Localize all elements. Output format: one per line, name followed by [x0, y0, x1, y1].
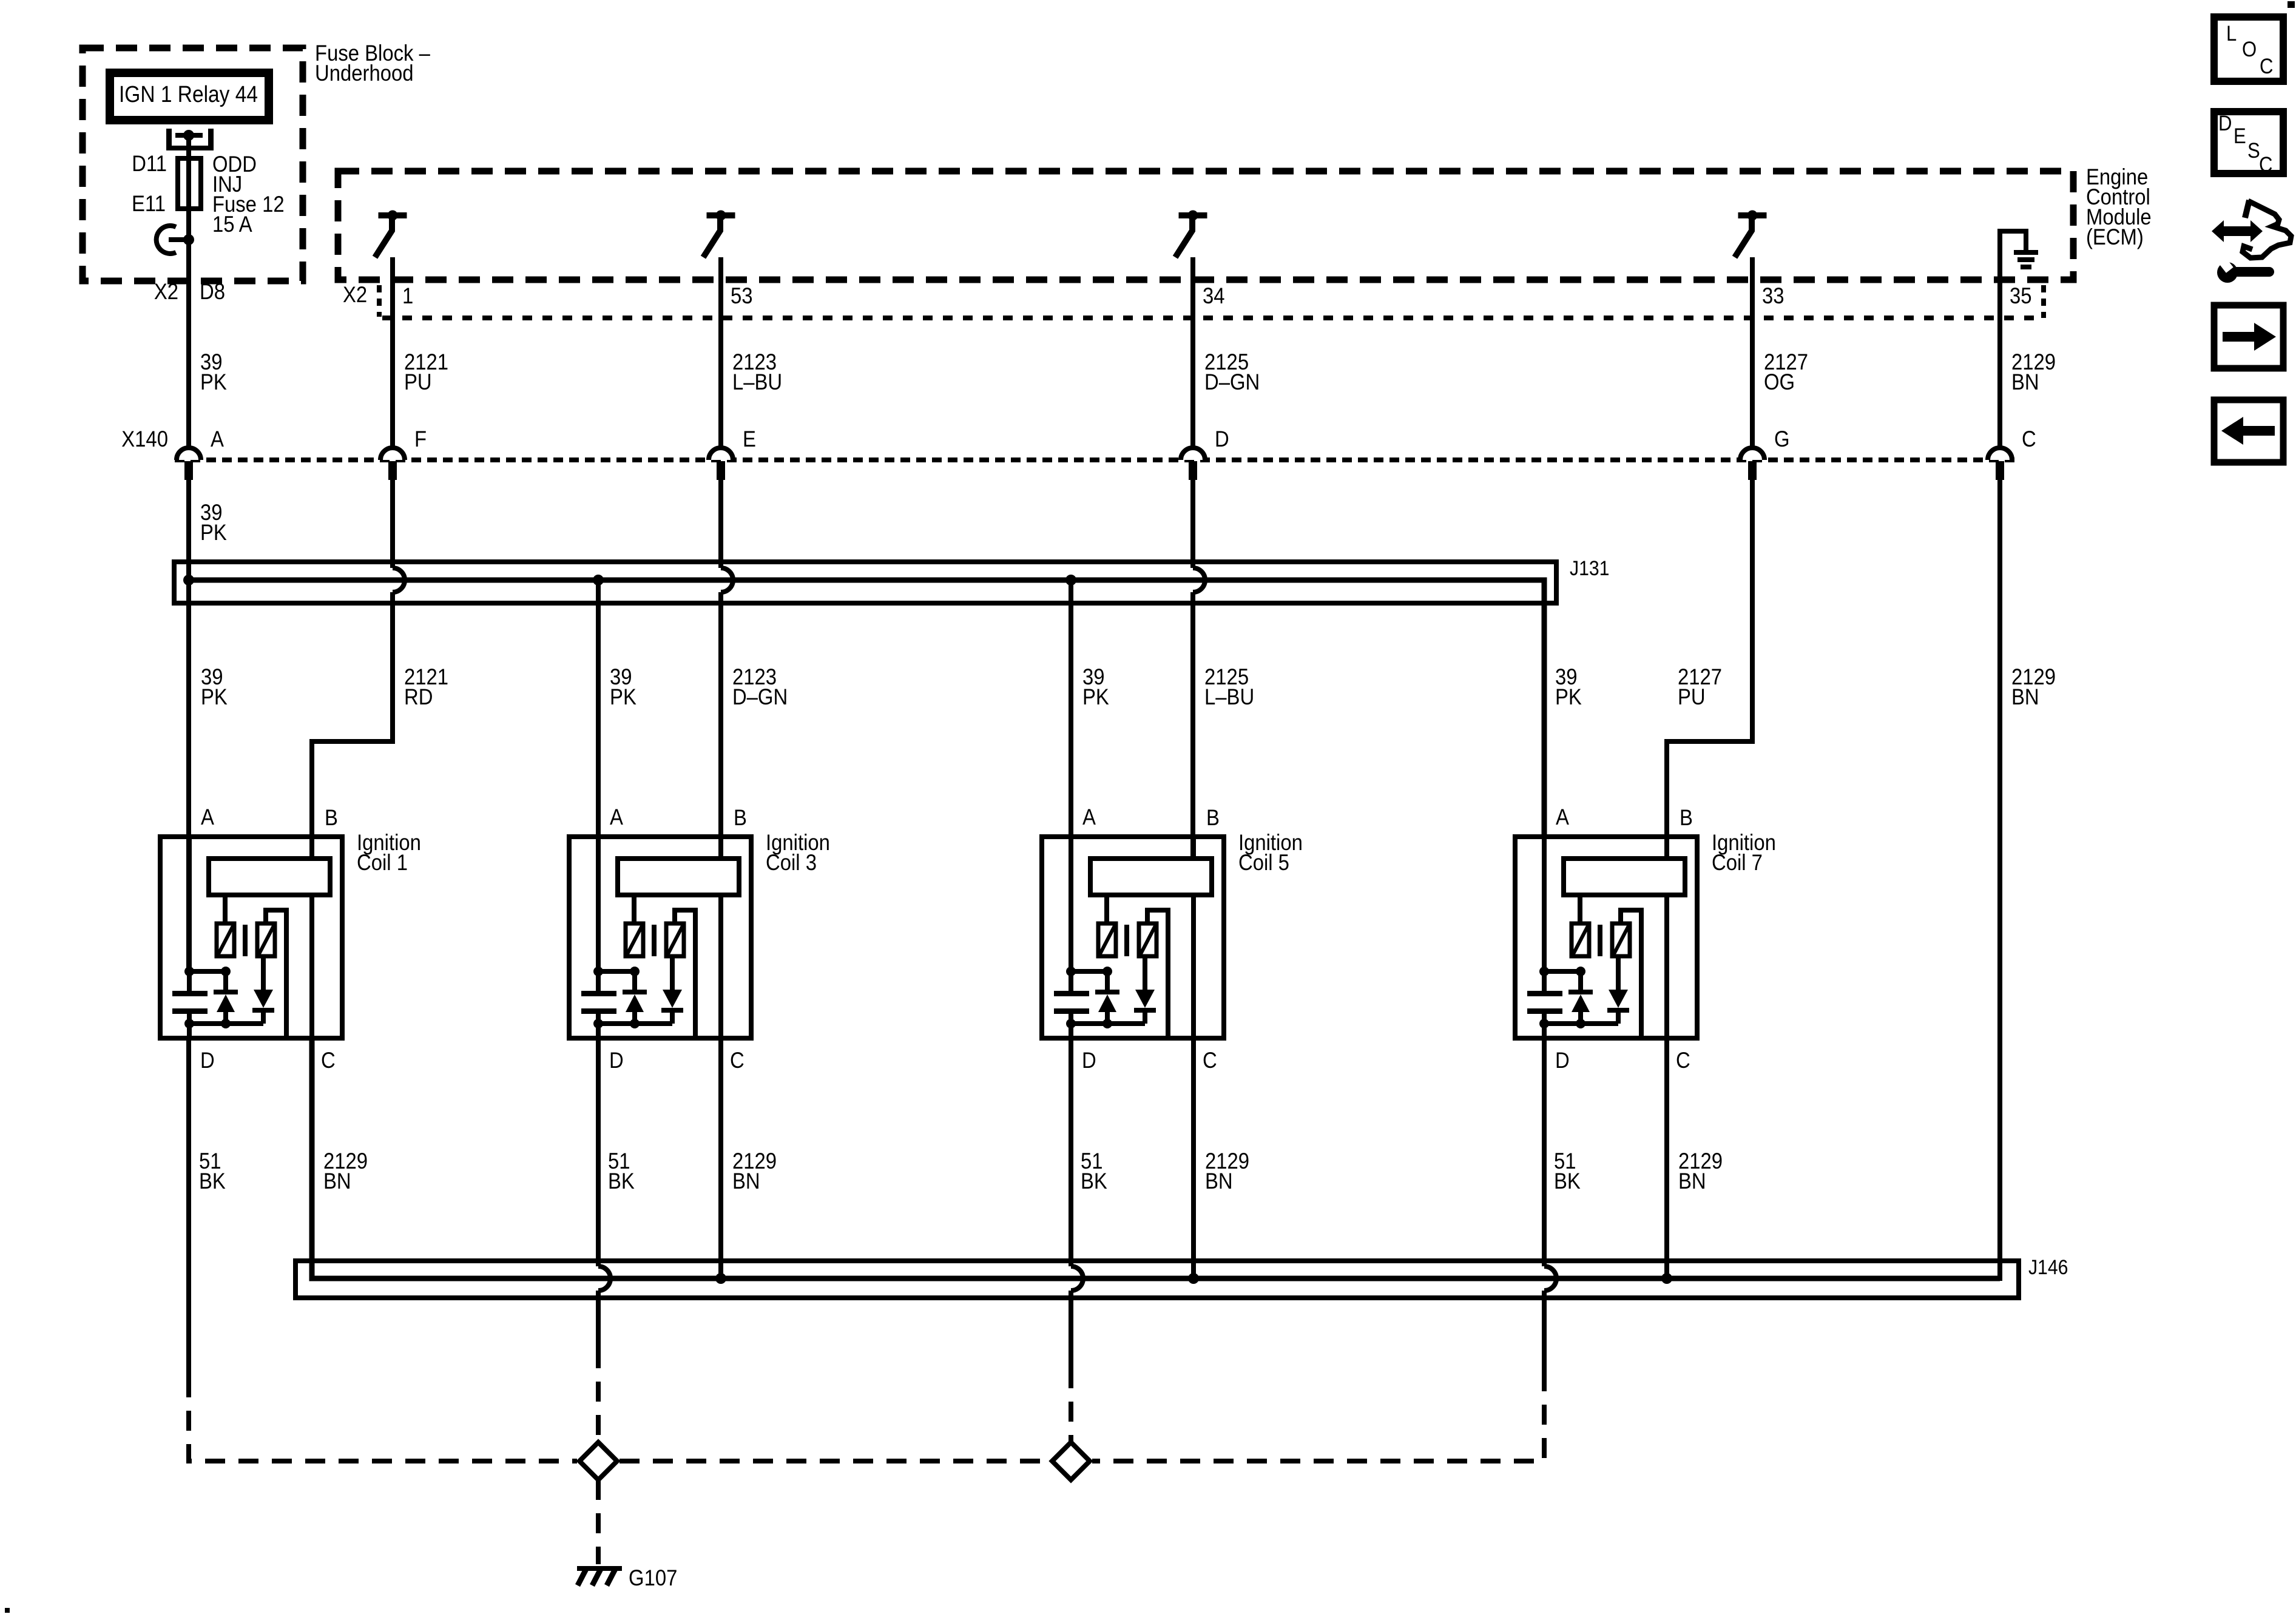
- wire 51 BK (coil 3 pin D below J146): [596, 1291, 601, 1348]
- coil 1 connector bar: [209, 859, 330, 895]
- svg-text:C: C: [730, 1048, 745, 1073]
- wire 51 BK (coil 3 D, dashed to splice diamond): [596, 1348, 601, 1442]
- svg-text:D11: D11: [132, 151, 167, 176]
- wire 39 PK (X140 to splice J131): [186, 480, 191, 578]
- label 39 PK: [200, 500, 227, 545]
- pin A (coil 1): [201, 805, 215, 829]
- connector X140 cavity G: [1740, 427, 1790, 480]
- wire 2129 BN (X140 to splice J146): [312, 480, 2000, 1278]
- wire 39 PK (J131 to coil 1 pin A): [186, 580, 191, 971]
- secondary winding (coil 3): [666, 923, 684, 956]
- label 2129 BN: [323, 1149, 368, 1193]
- label G107: [629, 1565, 677, 1590]
- svg-text:1: 1: [402, 283, 413, 308]
- wire 51 BK (coil 5 pin D below J146): [1069, 1291, 1073, 1368]
- svg-text:C: C: [321, 1048, 336, 1073]
- splice J146 bus wire: [312, 1038, 2000, 1278]
- core (coil 5): [1124, 925, 1129, 956]
- junction dot (coil 7): [1539, 1019, 1549, 1028]
- svg-text:BK: BK: [1081, 1169, 1107, 1193]
- svg-text:PK: PK: [200, 370, 227, 394]
- svg-text:BK: BK: [199, 1169, 226, 1193]
- label 2123 D–GN: [732, 664, 788, 709]
- coil 3 connector bar: [618, 859, 739, 895]
- junction dot (coil 7): [1576, 1019, 1585, 1028]
- label 2129 BN: [732, 1149, 777, 1193]
- diode (coil 7 left): [1568, 971, 1593, 1024]
- pin B (coil 3): [734, 805, 747, 830]
- wire 2121 PU (ECM to X140): [390, 257, 395, 449]
- wire (coil 5 pin C internal): [1191, 895, 1196, 1038]
- svg-text:D: D: [1555, 1048, 1570, 1073]
- icon button next (right arrow): [2214, 305, 2283, 368]
- wire (coil 7 pin B internal): [1664, 837, 1669, 859]
- wire 39 PK (J131 to coil 7 pin A): [1542, 837, 1547, 971]
- svg-text:(ECM): (ECM): [2086, 224, 2144, 249]
- wire hop (2125 over J131): [1193, 568, 1205, 592]
- wire hop (coil 3 pin D over J146): [598, 1266, 610, 1291]
- connector X2 separator (right): [2041, 285, 2046, 318]
- junction dot (J131 tap coil 5): [1065, 575, 1076, 586]
- wire (coil 7 secondary output): [1621, 910, 1641, 1038]
- wire (coil 5 secondary output): [1147, 910, 1168, 1038]
- fuse block underhood (dashed box): [83, 48, 303, 281]
- junction dot (coil 5): [1102, 1019, 1112, 1028]
- ignition coil 1: [160, 837, 342, 1038]
- junction dot (J146 coil 5 C): [1188, 1273, 1199, 1284]
- svg-text:G107: G107: [629, 1565, 677, 1590]
- svg-text:C: C: [1203, 1048, 1217, 1073]
- svg-text:RD: RD: [404, 684, 433, 709]
- wire 39 PK (J131 to coil 3 pin A): [596, 580, 601, 971]
- secondary winding (coil 7): [1612, 923, 1630, 956]
- svg-text:IGN 1 Relay 44: IGN 1 Relay 44: [119, 82, 258, 107]
- svg-text:E: E: [2234, 124, 2246, 148]
- wire 39 PK (J131 to coil 5 pin A): [1069, 580, 1073, 971]
- label 2129 BN: [2011, 664, 2056, 709]
- wire 51 BK (coil 3 pin D down): [596, 1038, 601, 1266]
- pin A (coil 5): [1082, 805, 1096, 829]
- pin B (coil 1): [325, 805, 338, 830]
- junction dot (coil 3): [630, 1019, 640, 1028]
- pin 35 (ECM X2): [2010, 283, 2032, 308]
- diode (coil 1 right): [252, 956, 274, 1024]
- label Ignition Coil 3: [766, 830, 830, 875]
- pin C (coil 5): [1203, 1048, 1217, 1073]
- primary winding (coil 3): [626, 895, 643, 956]
- wire (coil 1 junction row): [189, 837, 226, 971]
- wire (coil 1 secondary output): [266, 910, 286, 1038]
- pin D11: [132, 151, 167, 176]
- svg-text:OG: OG: [1764, 370, 1795, 394]
- ignition coil 3: [569, 837, 751, 1038]
- ECM coil driver (pin 33): [1735, 211, 1767, 258]
- junction dot (coil 1): [221, 1019, 231, 1028]
- splice diamond (right): [1052, 1442, 1090, 1480]
- junction dot (hook): [183, 234, 194, 245]
- icon button back (left arrow): [2214, 400, 2283, 462]
- label 2129 BN: [1205, 1149, 1249, 1193]
- svg-text:C: C: [2260, 55, 2273, 78]
- label 2123 L-BU: [732, 349, 782, 394]
- label 39 PK: [201, 664, 228, 709]
- svg-text:D: D: [609, 1048, 624, 1073]
- svg-text:D–GN: D–GN: [1204, 370, 1260, 394]
- label Ignition Coil 7: [1712, 830, 1776, 875]
- junction dot (J131 at wire A): [183, 575, 194, 586]
- junction dot (J146 coil 3 C): [715, 1273, 726, 1284]
- pin X2 (fuse block): [154, 279, 178, 304]
- wire (coil 7 bottom row): [1544, 1024, 1618, 1038]
- wire (coil 5 pin B internal): [1191, 837, 1196, 859]
- wire 2129 BN (coil 1 pin C to J146): [309, 1038, 314, 1278]
- wire hop (2121 over J131): [393, 568, 405, 592]
- wire (coil 7 junction row): [1544, 837, 1581, 971]
- svg-text:X2: X2: [343, 282, 367, 307]
- svg-text:D: D: [2218, 112, 2232, 135]
- capacitor (coil 5): [1054, 971, 1089, 1024]
- pin B (coil 7): [1680, 805, 1693, 830]
- ECM coil driver (pin 34): [1175, 211, 1207, 258]
- wire 2121 RD (to coil 1 pin B): [312, 592, 393, 859]
- connector X140 cavity E: [709, 427, 756, 480]
- wire 51 BK (diamond to ground G107): [596, 1480, 601, 1564]
- coil 5 connector bar: [1090, 859, 1212, 895]
- junction dot (J146 coil 7 C): [1661, 1273, 1672, 1284]
- svg-text:BK: BK: [608, 1169, 635, 1193]
- pin 33 (ECM X2): [1762, 283, 1784, 308]
- junction dot (coil 1): [184, 1019, 194, 1028]
- svg-text:33: 33: [1762, 283, 1784, 308]
- ground G107: [577, 1568, 622, 1585]
- pin C (coil 7): [1676, 1048, 1690, 1073]
- engine control module ECM (dashed box): [338, 171, 2073, 280]
- wire 2127 OG (ECM to X140): [1750, 257, 1755, 449]
- ECM coil driver (pin 53): [703, 211, 735, 258]
- svg-text:PK: PK: [200, 520, 227, 545]
- svg-text:PK: PK: [201, 684, 228, 709]
- pin D (coil 3): [609, 1048, 624, 1073]
- wire 51 BK (coil 7 pin D below J146): [1542, 1291, 1547, 1371]
- svg-text:G: G: [1774, 427, 1790, 451]
- ignition coil 5: [1042, 837, 1224, 1038]
- primary winding (coil 5): [1098, 895, 1116, 956]
- svg-text:BN: BN: [2011, 684, 2039, 709]
- connector X140 cavity A: [177, 427, 225, 480]
- wire (coil 1 pin B internal): [309, 837, 314, 859]
- wire 39 PK (fuse block to X140): [186, 280, 191, 449]
- secondary winding (coil 5): [1139, 923, 1156, 956]
- wire 51 BK (ground bus, diamond to diamond): [620, 1459, 1050, 1463]
- connector X140 label: [121, 427, 168, 451]
- svg-text:B: B: [1680, 805, 1693, 830]
- svg-text:35: 35: [2010, 283, 2032, 308]
- wire 39 PK (fuse block exit): [186, 240, 191, 280]
- svg-text:A: A: [610, 805, 624, 829]
- diode (coil 1 left): [214, 971, 238, 1024]
- svg-text:Coil 7: Coil 7: [1712, 850, 1763, 875]
- junction dot (coil 3): [593, 967, 603, 976]
- junction dot (J131 tap coil 3): [593, 575, 604, 586]
- connector X140 cavity F: [380, 427, 427, 480]
- pin D8: [200, 279, 225, 304]
- label 51 BK: [199, 1149, 226, 1193]
- pin B (coil 5): [1206, 805, 1220, 830]
- svg-text:E: E: [743, 427, 756, 451]
- relay contact bracket: [166, 129, 214, 150]
- svg-text:X140: X140: [121, 427, 168, 451]
- label 2127 OG: [1764, 349, 1808, 394]
- wire hop (coil 7 pin D over J146): [1544, 1266, 1556, 1291]
- splice J146 (box): [295, 1261, 2019, 1298]
- label 2121 RD: [404, 664, 448, 709]
- pin E11: [132, 191, 166, 216]
- svg-text:PU: PU: [1678, 684, 1706, 709]
- relay contact hook: [157, 226, 189, 254]
- wire 2125 (X140 to J131): [1190, 480, 1195, 568]
- svg-text:B: B: [1206, 805, 1220, 830]
- label 39 PK: [200, 349, 227, 394]
- label 39 PK: [1555, 664, 1582, 709]
- pin A (coil 7): [1556, 805, 1570, 829]
- wire 2125 D-GN (ECM to X140): [1190, 257, 1195, 449]
- svg-text:L–BU: L–BU: [1204, 684, 1254, 709]
- connector X140 (dotted line): [175, 457, 2014, 462]
- wire (coil 5 bottom row): [1071, 1024, 1145, 1038]
- svg-text:Underhood: Underhood: [315, 61, 413, 86]
- connector X2 (ECM) label: [343, 282, 367, 307]
- wire (coil 5 junction row): [1071, 837, 1107, 971]
- connector X2 separator (left): [377, 285, 382, 317]
- junction dot (coil 7): [1576, 967, 1585, 976]
- pin A (coil 3): [610, 805, 624, 829]
- svg-text:BK: BK: [1554, 1169, 1581, 1193]
- wire 51 BK (coil 7 pin D down): [1542, 1038, 1547, 1266]
- svg-text:B: B: [734, 805, 747, 830]
- svg-text:L–BU: L–BU: [732, 370, 782, 394]
- wire (coil 7 pin C internal): [1664, 895, 1669, 1038]
- label 51 BK: [608, 1149, 635, 1193]
- svg-text:PK: PK: [1082, 684, 1109, 709]
- svg-text:A: A: [1556, 805, 1570, 829]
- junction dot (coil 7): [1539, 967, 1549, 976]
- wire 2129 BN (coil 3 pin C to J146): [718, 1038, 723, 1278]
- pin 1 (ECM X2): [402, 283, 413, 308]
- label Ignition Coil 5: [1238, 830, 1303, 875]
- svg-text:S: S: [2247, 139, 2260, 163]
- page mark (top right): [2288, 1, 2295, 8]
- icon button LOC: [2214, 17, 2283, 81]
- core (coil 3): [652, 925, 657, 956]
- pin 53 (ECM X2): [731, 283, 753, 308]
- svg-text:BN: BN: [1678, 1169, 1706, 1193]
- junction dot (coil 1): [184, 967, 194, 976]
- wire (coil 3 pin B internal): [718, 837, 723, 859]
- ECM coil driver (pin 1): [375, 211, 407, 258]
- wire 2125 L-BU (to coil 5 pin B): [1190, 592, 1195, 859]
- svg-text:C: C: [2259, 153, 2272, 177]
- wire (relay to fuse): [186, 135, 191, 158]
- splice J131 bus wire: [189, 580, 1544, 837]
- page mark (bottom left): [5, 1608, 10, 1613]
- pin 34 (ECM X2): [1203, 283, 1225, 308]
- label 2129 BN: [2011, 349, 2056, 394]
- svg-text:PU: PU: [404, 370, 432, 394]
- svg-text:PK: PK: [1555, 684, 1582, 709]
- wire 2123 D-GN (to coil 3 pin B): [718, 592, 723, 859]
- label 39 PK: [1082, 664, 1109, 709]
- ECM internal ground (pin 35): [2000, 231, 2038, 283]
- wire 2127 PU (X140 to coil 7 pin B): [1667, 480, 1752, 859]
- svg-text:J131: J131: [1570, 556, 1609, 579]
- svg-text:PK: PK: [610, 684, 636, 709]
- connector X140 cavity D: [1181, 427, 1229, 480]
- svg-text:A: A: [1082, 805, 1096, 829]
- label 51 BK: [1081, 1149, 1107, 1193]
- label 2125 L–BU: [1204, 664, 1254, 709]
- ignition coil 7: [1515, 837, 1697, 1038]
- wire 2129 BN (coil 7 pin C to J146): [1664, 1038, 1669, 1278]
- diode (coil 3 right): [661, 956, 683, 1024]
- pin D (coil 1): [200, 1048, 215, 1073]
- wire 51 BK (coil 5 D, dashed to splice diamond): [1069, 1368, 1073, 1442]
- label 2129 BN: [1678, 1149, 1723, 1193]
- diode (coil 7 right): [1607, 956, 1629, 1024]
- splice J131 (box): [174, 562, 1556, 603]
- wire hop (coil 5 pin D over J146): [1071, 1266, 1083, 1291]
- svg-text:E11: E11: [132, 191, 166, 216]
- svg-text:BN: BN: [323, 1169, 351, 1193]
- svg-text:Coil 5: Coil 5: [1238, 850, 1289, 875]
- wire 2123 (X140 to J131): [718, 480, 723, 568]
- label J146: [2028, 1255, 2068, 1278]
- wire 51 BK (coil 5 pin D down): [1069, 1038, 1073, 1266]
- secondary winding (coil 1): [257, 923, 275, 956]
- capacitor (coil 7): [1527, 971, 1562, 1024]
- svg-text:F: F: [414, 427, 427, 451]
- svg-text:D: D: [1082, 1048, 1096, 1073]
- capacitor (coil 1): [172, 971, 208, 1024]
- junction dot (coil 5): [1102, 967, 1112, 976]
- core (coil 7): [1598, 925, 1602, 956]
- pin D (coil 7): [1555, 1048, 1570, 1073]
- label Engine Control Module (ECM): [2086, 164, 2152, 249]
- svg-text:O: O: [2242, 38, 2257, 61]
- wire (coil 3 secondary output): [675, 910, 695, 1038]
- wire 2123 L-BU (ECM to X140): [718, 257, 723, 449]
- junction dot (coil 3): [630, 967, 640, 976]
- svg-text:X2: X2: [154, 279, 178, 304]
- svg-text:BN: BN: [1205, 1169, 1233, 1193]
- diode (coil 5 right): [1134, 956, 1156, 1024]
- svg-text:Coil 1: Coil 1: [357, 850, 408, 875]
- splice diamond (left): [579, 1442, 617, 1480]
- svg-text:BN: BN: [2011, 370, 2039, 394]
- core (coil 1): [243, 925, 248, 956]
- junction dot (coil 1): [221, 967, 231, 976]
- svg-text:B: B: [325, 805, 338, 830]
- label 39 PK: [610, 664, 636, 709]
- junction dot (coil 3): [593, 1019, 603, 1028]
- relay IGN 1 Relay 44: [110, 73, 269, 120]
- svg-text:BN: BN: [732, 1169, 760, 1193]
- svg-text:15 A: 15 A: [212, 212, 252, 237]
- svg-text:D: D: [200, 1048, 215, 1073]
- diode (coil 5 left): [1095, 971, 1119, 1024]
- svg-text:D: D: [1215, 427, 1229, 451]
- wire 51 BK (coil 1 D, dashed to ground bus): [189, 1377, 577, 1461]
- svg-text:34: 34: [1203, 283, 1225, 308]
- junction dot (relay output): [183, 130, 194, 141]
- label ODD INJ Fuse 12 15 A: [212, 152, 285, 237]
- wire (coil 3 pin C internal): [718, 895, 723, 1038]
- svg-text:Coil 3: Coil 3: [766, 850, 817, 875]
- label 2125 D-GN: [1204, 349, 1260, 394]
- diode (coil 3 left): [623, 971, 647, 1024]
- connector X140 cavity C: [1988, 427, 2036, 480]
- icon button DESC: [2214, 112, 2283, 177]
- svg-text:C: C: [1676, 1048, 1690, 1073]
- label Ignition Coil 1: [357, 830, 421, 875]
- wire 2129 BN (coil 5 pin C to J146): [1191, 1038, 1196, 1278]
- svg-text:53: 53: [731, 283, 753, 308]
- svg-text:D8: D8: [200, 279, 225, 304]
- wire (coil 1 bottom row): [189, 1024, 263, 1038]
- wire hop (2123 over J131): [721, 568, 733, 592]
- label 2127 PU: [1678, 664, 1722, 709]
- label 51 BK: [1554, 1149, 1581, 1193]
- svg-text:D–GN: D–GN: [732, 684, 788, 709]
- primary winding (coil 1): [217, 895, 234, 956]
- primary winding (coil 7): [1572, 895, 1589, 956]
- icon adjust/replace (hand with wrench): [2212, 200, 2291, 283]
- capacitor (coil 3): [581, 971, 616, 1024]
- svg-text:J146: J146: [2028, 1255, 2068, 1278]
- label J131: [1570, 556, 1609, 579]
- wire (coil 3 bottom row): [598, 1024, 672, 1038]
- svg-text:A: A: [201, 805, 215, 829]
- label Fuse Block - Underhood: [315, 41, 430, 86]
- coil 7 connector bar: [1564, 859, 1685, 895]
- junction dot (coil 5): [1066, 1019, 1076, 1028]
- wire 51 BK (coil 7 D, dashed to ground bus): [1092, 1371, 1544, 1461]
- junction dot (coil 5): [1066, 967, 1076, 976]
- svg-text:L: L: [2226, 22, 2237, 46]
- wire 51 BK (coil 1 pin D down): [186, 1038, 191, 1377]
- wire 2129 BN (ECM pin 35 to X140): [1997, 280, 2002, 449]
- pin C (coil 1): [321, 1048, 336, 1073]
- wire (coil 3 junction row): [598, 837, 635, 971]
- wire 2121 (X140 to jog): [390, 480, 395, 568]
- fuse ODD INJ Fuse 12 15 A: [178, 158, 201, 237]
- pin D (coil 5): [1082, 1048, 1096, 1073]
- svg-text:A: A: [211, 427, 225, 451]
- pin C (coil 3): [730, 1048, 745, 1073]
- connector X2 boundary (dotted): [382, 316, 2044, 320]
- wire (coil 1 pin C internal): [309, 895, 314, 1038]
- svg-text:C: C: [2022, 427, 2036, 451]
- label 2121 PU: [404, 349, 448, 394]
